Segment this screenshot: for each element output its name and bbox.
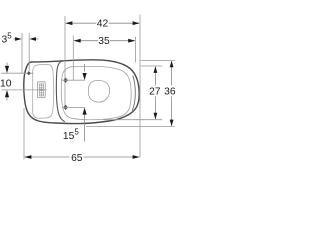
reference line y=73.2 (10 dim top) [2,72,34,74]
dimension 35 right arrow [128,39,135,43]
extension line x=73.3 (35 dim) [72,36,74,81]
svg-text:27: 27 [149,87,161,98]
toilet outer silhouette (ceramic body, top view) [24,60,139,124]
flush button outline [37,82,45,98]
seat fixing hole lower diamond [63,105,68,110]
reference line y=66 (27 dim top) [141,65,163,67]
extension line x=22 (3.5 dim left) [21,33,23,73]
dimension 3.5 left-pointing arrow [33,38,38,40]
extension line x=140 (front edge datum) [139,15,141,158]
seat front edge [132,76,135,111]
dimension 42 right arrow [133,21,140,25]
seat fixing hole upper diamond [63,78,68,83]
flush button large key [39,91,43,96]
reference line y=126.5 (36 dim bottom) [86,125,175,127]
flush button key ticks [40,85,44,87]
flush button vertical centerline [40,83,42,96]
dimension 35 line [74,40,98,42]
supply connection marker diamond [27,71,31,75]
dimension 65 left arrow [24,155,31,159]
dimension 36 down arrow [170,120,174,127]
dimension 35 left arrow [74,39,81,43]
bowl opening [88,80,109,102]
svg-text:155: 155 [63,127,79,142]
flush button small key [39,84,43,89]
reference line y=119.7 (27 dim bottom) [103,119,162,121]
leader line y=107.4 (15.5 dim bottom) [62,106,85,108]
dimension 15.5 top down-arrow with stub [84,64,86,72]
svg-text:65: 65 [71,153,83,164]
dimension 36 line [171,61,173,85]
dimension 10 up arrow [6,96,8,101]
dimension 3.5 right-pointing arrow [14,38,18,40]
svg-text:42: 42 [97,18,109,29]
dimension 36 up arrow [170,61,174,68]
leader line y=80.2 (15.5 dim top) [62,79,85,81]
svg-text:35: 35 [2,32,13,46]
reference line y=60.4 (36 dim top) [141,59,175,61]
svg-text:36: 36 [164,87,176,98]
dimension 42 line [66,22,97,24]
dimension 27 down arrow [154,113,158,120]
toilet seat outline [56,61,64,121]
extension line x=24 (rear edge, 65 dim) [23,108,25,160]
dimension 27 line [154,67,156,86]
cistern lid inner line [33,64,54,118]
dimension 65 line [25,156,70,158]
dimension 65 right arrow [133,155,140,159]
extension line x=135.5 (35 dim right) [135,37,137,63]
svg-text:35: 35 [98,36,110,47]
dimension 42 left arrow [65,21,72,25]
dimension 10 down arrow [6,63,8,68]
extension line x=29.2 (3.5 dim right) [28,33,30,71]
dimension 15.5 bottom up-arrow with leader to label [84,114,86,142]
svg-text:10: 10 [0,78,12,89]
extension line x=65 (42 dim, through seat fixing holes) [64,16,66,107]
dimension 27 up arrow [154,66,158,73]
reference line y=89.9 (10 dim bottom, through button) [2,89,47,91]
seat inner ring [61,67,131,120]
